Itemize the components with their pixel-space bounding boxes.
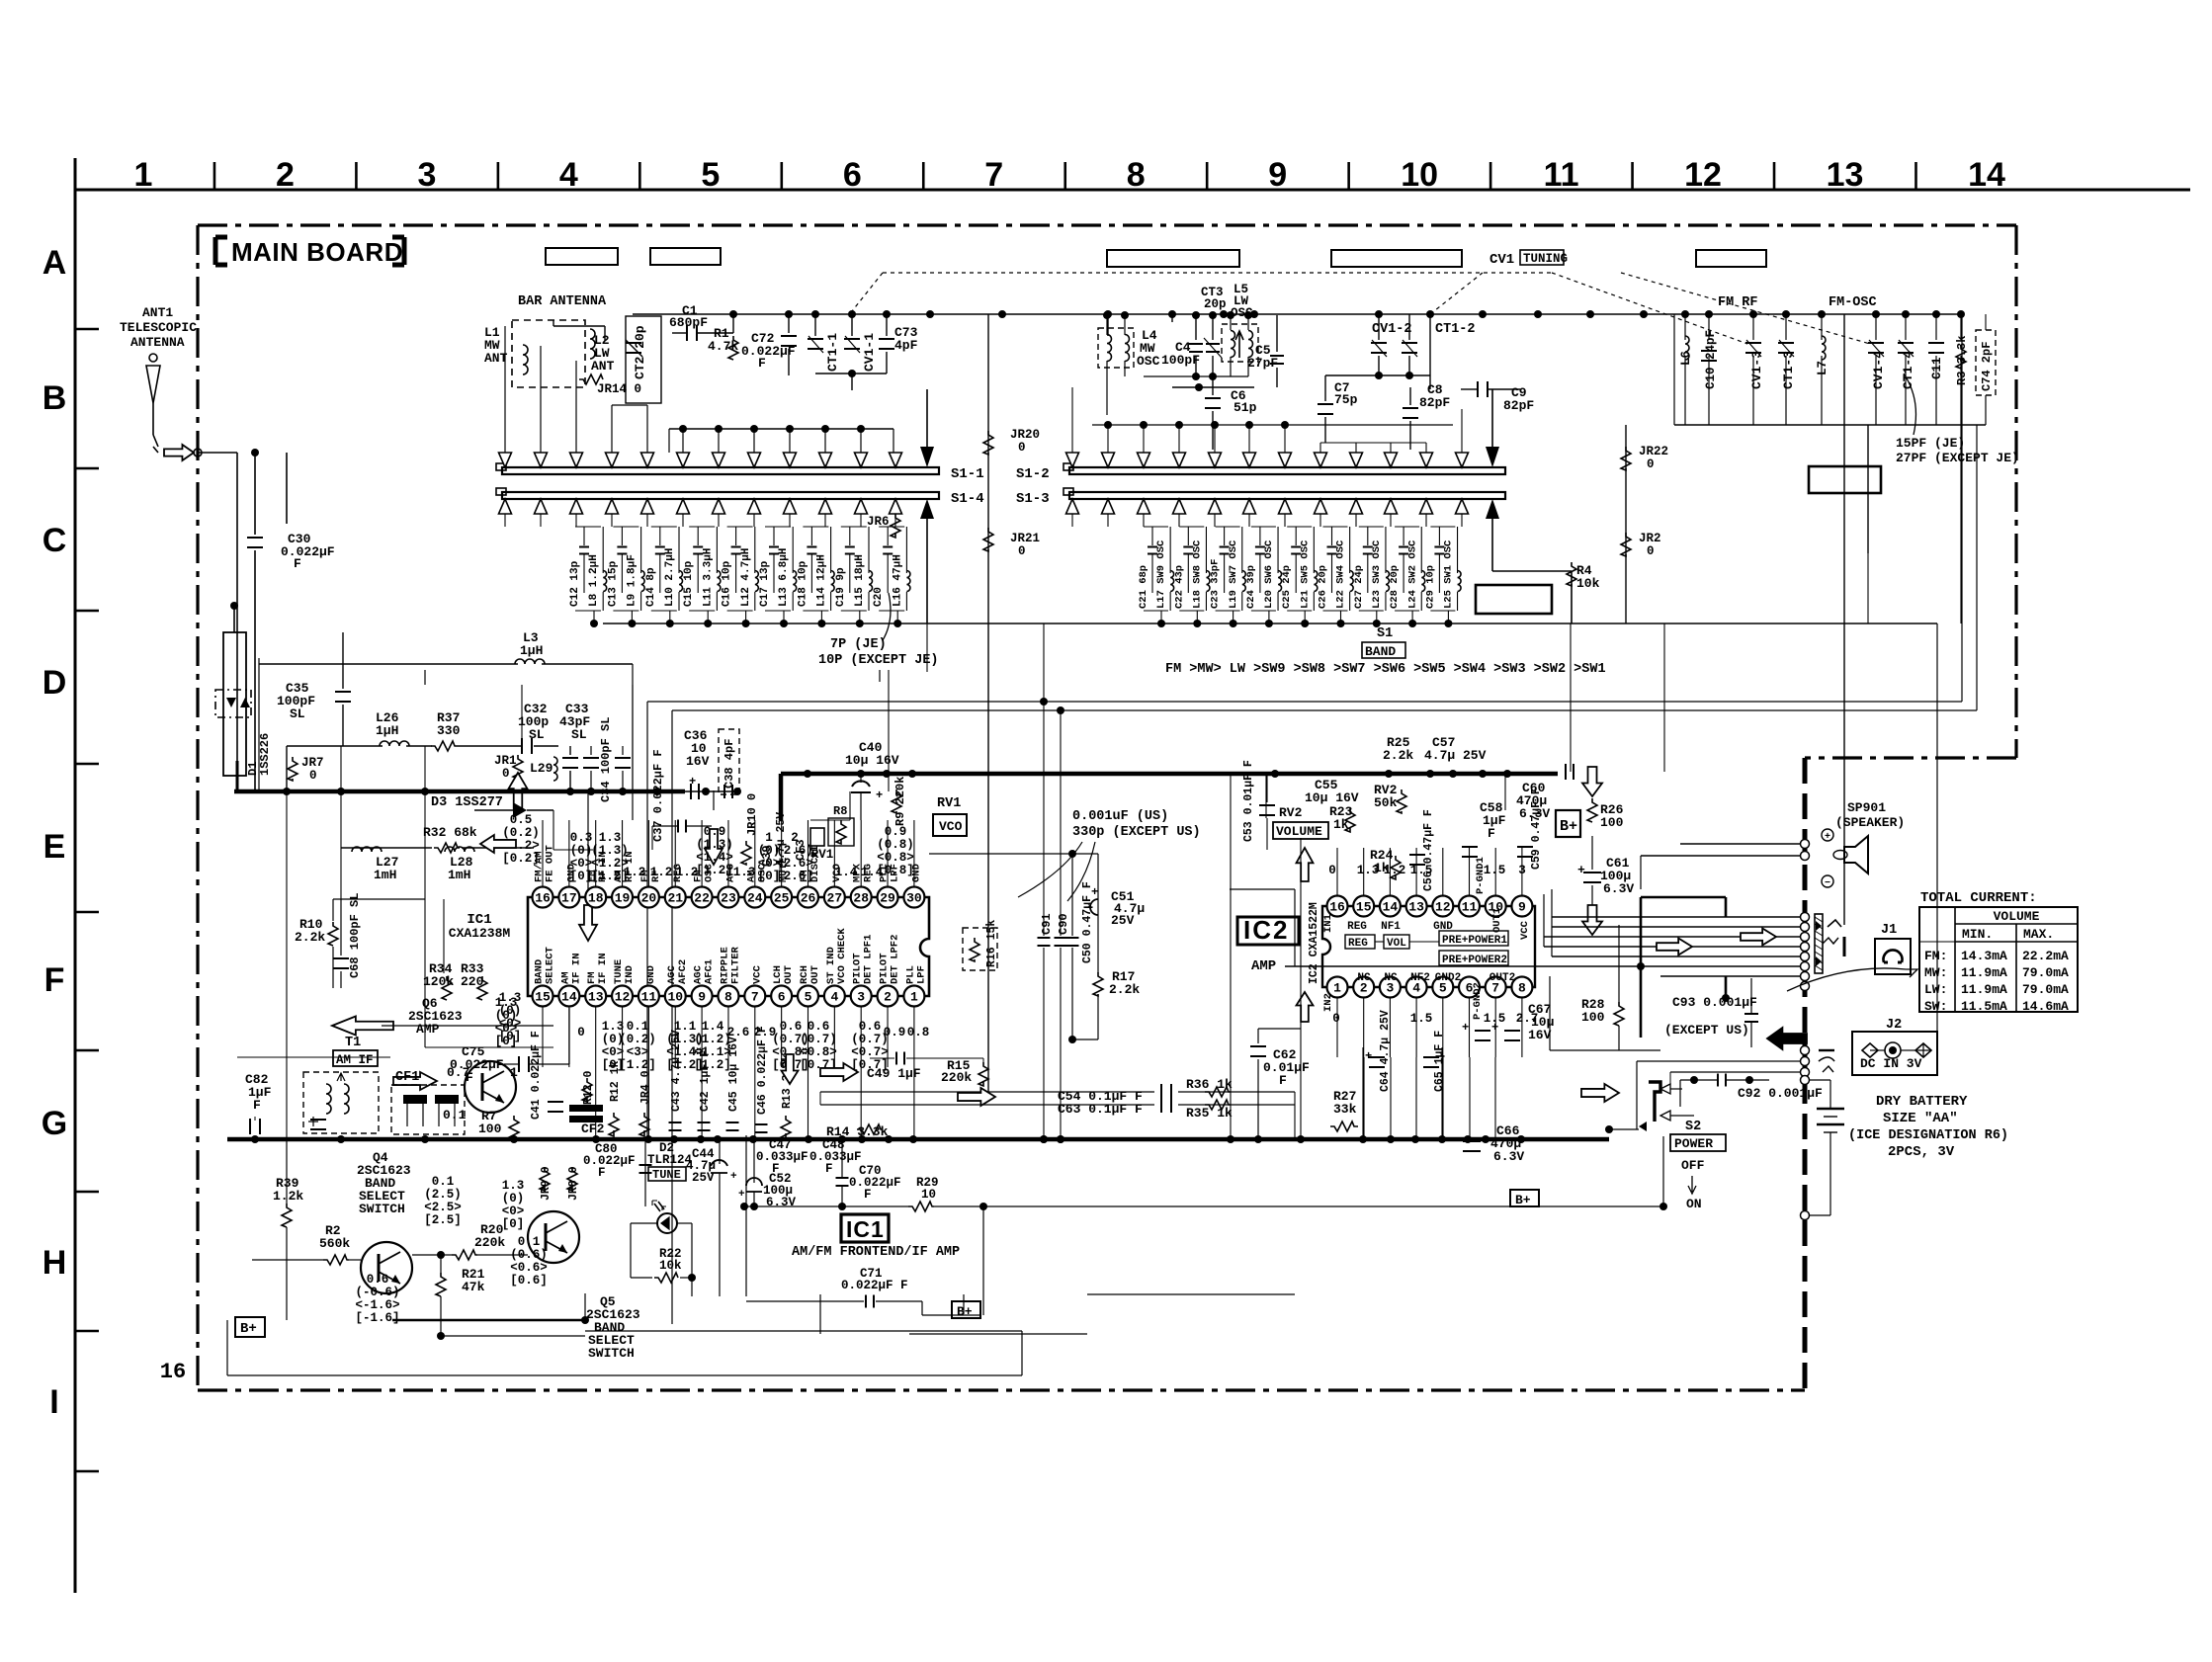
svg-text:BAR ANTENNA: BAR ANTENNA [518,294,607,309]
svg-text:GND2: GND2 [1435,972,1461,984]
svg-text:13: 13 [588,990,604,1005]
svg-text:2: 2 [791,831,799,845]
svg-text:L8 1.2μH: L8 1.2μH [588,554,600,607]
svg-text:F: F [825,1162,833,1176]
svg-text:1.3: 1.3 [599,831,622,845]
svg-text:1.3: 1.3 [733,866,756,879]
svg-text:MAIN BOARD: MAIN BOARD [231,237,403,267]
svg-text:RV1: RV1 [811,848,834,862]
svg-text:4: 4 [559,156,578,194]
svg-text:C18 10p: C18 10p [797,560,808,607]
svg-text:<0>: <0> [570,857,593,871]
svg-text:27: 27 [827,891,843,906]
svg-text:C41 0.022μF F: C41 0.022μF F [530,1031,543,1120]
svg-text:(SPEAKER): (SPEAKER) [1835,815,1905,830]
svg-text:L24 SW2 OSC: L24 SW2 OSC [1406,540,1418,609]
svg-text:0: 0 [1018,441,1026,455]
svg-text:51p: 51p [1234,400,1257,415]
svg-text:3: 3 [857,990,865,1005]
svg-text:[0.6]: [0.6] [510,1274,548,1288]
svg-text:JR14 0: JR14 0 [597,382,641,396]
svg-text:L18 SW8 OSC: L18 SW8 OSC [1191,540,1203,609]
svg-text:0.1: 0.1 [627,1020,649,1034]
svg-text:2: 2 [276,156,295,194]
svg-text:20: 20 [641,891,657,906]
svg-text:12: 12 [1684,156,1722,194]
svg-text:C: C [43,522,67,559]
svg-text:1: 1 [765,831,773,845]
svg-text:P-GND1: P-GND1 [1475,857,1487,894]
svg-text:TUNING: TUNING [1523,252,1568,266]
svg-text:330p (EXCEPT US): 330p (EXCEPT US) [1072,825,1201,840]
svg-text:24: 24 [747,891,763,906]
svg-text:[0]: [0] [499,1030,522,1043]
svg-text:DET LPF1: DET LPF1 [863,935,875,984]
svg-text:TELESCOPIC: TELESCOPIC [120,320,197,335]
svg-text:14: 14 [1968,156,2005,194]
svg-text:0.022μF: 0.022μF [849,1176,901,1190]
svg-text:1μH: 1μH [376,723,398,738]
svg-text:79.0mA: 79.0mA [2022,965,2069,980]
svg-text:S1-4: S1-4 [951,491,984,507]
svg-text:+: + [1491,1021,1498,1035]
svg-text:(-0.6): (-0.6) [355,1286,399,1299]
svg-text:FM:: FM: [1924,949,1947,963]
svg-text:2.2k: 2.2k [295,930,325,945]
svg-text:0.1: 0.1 [443,1108,467,1122]
svg-text:22: 22 [694,891,710,906]
svg-text:23: 23 [721,891,736,906]
svg-text:+: + [730,1171,737,1183]
svg-text:220k: 220k [941,1070,972,1085]
svg-text:MW:: MW: [1924,965,1947,980]
svg-text:(0.8): (0.8) [877,838,914,852]
svg-text:AM IF: AM IF [336,1053,374,1067]
svg-text:LW:: LW: [1924,982,1947,997]
svg-text:F: F [253,1098,261,1113]
svg-text:16V: 16V [1528,1028,1552,1042]
svg-text:18: 18 [588,891,604,906]
svg-text:PRE+POWER1: PRE+POWER1 [1442,935,1507,947]
svg-text:C19 9p: C19 9p [835,567,847,607]
svg-text:RV2: RV2 [1279,805,1303,820]
svg-text:OUT: OUT [809,965,821,984]
svg-text:16: 16 [1329,900,1345,915]
svg-text:C74 2pF: C74 2pF [1980,342,1994,391]
svg-text:C10 24pF: C10 24pF [1704,330,1718,389]
svg-text:(0): (0) [502,1192,525,1205]
svg-text:100: 100 [1581,1010,1605,1025]
svg-text:FM RF: FM RF [1718,295,1758,310]
svg-text:0.5: 0.5 [510,813,533,827]
svg-text:IF IN: IF IN [570,953,582,984]
svg-text:0: 0 [1018,544,1026,558]
svg-text:CXA1238M: CXA1238M [449,926,511,941]
svg-text:50k: 50k [1374,795,1398,810]
svg-text:0.6: 0.6 [808,1020,830,1034]
svg-text:JR10 0: JR10 0 [745,793,759,836]
svg-text:C37 0.022μF F: C37 0.022μF F [651,749,665,842]
svg-text:100pF: 100pF [1161,353,1200,368]
svg-text:<3>: <3> [627,1045,649,1059]
svg-text:L16 47μH: L16 47μH [892,554,903,607]
svg-text:1mH: 1mH [374,868,396,882]
svg-text:F: F [758,356,766,371]
svg-text:NC: NC [1357,972,1371,984]
svg-text:<0>: <0> [499,1017,522,1031]
svg-text:CT1-2: CT1-2 [1435,322,1476,337]
svg-text:11.9mA: 11.9mA [1961,982,2007,997]
svg-text:BAND: BAND [1365,644,1396,659]
svg-text:0.033μF: 0.033μF [756,1150,808,1164]
svg-text:5: 5 [701,156,720,194]
svg-text:L20 SW6 OSC: L20 SW6 OSC [1263,540,1275,609]
svg-text:82pF: 82pF [1503,398,1534,413]
svg-text:C46 0.022μF F: C46 0.022μF F [756,1026,769,1115]
svg-text:[0.8]: [0.8] [877,864,914,877]
svg-text:L10 2.7μH: L10 2.7μH [664,548,676,607]
svg-text:C63 0.1μF F: C63 0.1μF F [1058,1102,1143,1117]
svg-text:C50 0.47μF F: C50 0.47μF F [1081,881,1094,963]
svg-text:VOLUME: VOLUME [1994,909,2040,924]
svg-text:TUNE: TUNE [652,1168,681,1182]
svg-text:(2.5): (2.5) [424,1188,462,1202]
svg-text:F: F [598,1166,606,1180]
svg-text:C49 1μF: C49 1μF [867,1066,921,1081]
svg-text:ON: ON [1686,1197,1702,1211]
svg-text:C23 33pF: C23 33pF [1210,559,1222,609]
svg-text:10k: 10k [659,1259,682,1273]
svg-text:B: B [43,379,67,417]
svg-text:0: 0 [1332,1012,1340,1026]
svg-text:19: 19 [615,891,631,906]
svg-text:AFC2: AFC2 [677,959,689,984]
svg-text:1.3: 1.3 [499,991,522,1005]
svg-text:14: 14 [1383,900,1399,915]
svg-text:0: 0 [1647,544,1655,558]
svg-text:79.0mA: 79.0mA [2022,982,2069,997]
svg-text:[1.2]: [1.2] [619,1058,656,1072]
svg-text:VOL: VOL [1387,938,1406,950]
svg-text:680pF: 680pF [669,315,708,330]
svg-text:SW:: SW: [1924,999,1947,1014]
svg-text:100: 100 [478,1122,502,1136]
svg-text:30: 30 [906,891,922,906]
svg-text:S1-3: S1-3 [1016,491,1050,507]
svg-text:ANT1: ANT1 [142,305,173,320]
svg-text:1.2: 1.2 [650,866,673,879]
svg-text:1.2k: 1.2k [273,1189,303,1204]
svg-text:1.3: 1.3 [602,1020,625,1034]
svg-text:CT1-1: CT1-1 [825,333,840,372]
svg-text:<0.6>: <0.6> [510,1261,548,1275]
svg-text:L21 SW5 OSC: L21 SW5 OSC [1299,540,1311,609]
svg-text:JR2: JR2 [1639,532,1661,545]
svg-text:S1-2: S1-2 [1016,466,1050,482]
svg-text:6.3V: 6.3V [1493,1149,1524,1164]
svg-text:5: 5 [805,990,812,1005]
svg-text:IND: IND [624,965,636,984]
svg-text:R12 1k: R12 1k [609,1060,622,1102]
svg-text:C91: C91 [1040,913,1054,935]
svg-text:T1: T1 [345,1036,361,1050]
svg-text:B+: B+ [957,1304,973,1319]
svg-text:C27 24p: C27 24p [1353,565,1365,609]
svg-text:AMP: AMP [416,1022,440,1037]
svg-text:VCC: VCC [1519,920,1531,940]
svg-text:29: 29 [880,891,895,906]
svg-text:10μ 16V: 10μ 16V [845,753,899,768]
svg-text:CF1: CF1 [395,1070,419,1085]
svg-text:1.4: 1.4 [835,866,858,879]
svg-text:C22 43p: C22 43p [1173,565,1185,609]
svg-text:6: 6 [843,156,862,194]
svg-text:560k: 560k [319,1236,350,1251]
svg-text:CF2: CF2 [581,1122,605,1136]
svg-text:+: + [1365,1049,1372,1063]
svg-text:13: 13 [1827,156,1864,194]
svg-text:LPF: LPF [915,965,927,984]
svg-text:0.9: 0.9 [704,825,726,839]
svg-text:L23 SW3 OSC: L23 SW3 OSC [1371,540,1383,609]
svg-text:0.1: 0.1 [432,1175,455,1189]
svg-text:0.033μF: 0.033μF [809,1150,862,1164]
svg-text:[-1.6]: [-1.6] [355,1311,399,1325]
svg-text:B+: B+ [240,1321,257,1337]
svg-text:L11 3.3μH: L11 3.3μH [702,548,714,607]
svg-text:SELECT: SELECT [545,947,556,984]
svg-text:0.6: 0.6 [780,1020,803,1034]
svg-text:C68 100pF SL: C68 100pF SL [348,893,362,978]
svg-text:SWITCH: SWITCH [359,1202,405,1216]
svg-text:0: 0 [502,767,510,781]
svg-text:C11: C11 [1930,357,1944,379]
svg-text:VOLUME: VOLUME [1276,824,1322,839]
svg-text:C14 8p: C14 8p [645,567,657,607]
svg-text:JR21: JR21 [1010,532,1040,545]
svg-text:1: 1 [134,156,153,194]
svg-text:1.4: 1.4 [702,1020,724,1034]
svg-text:D: D [43,664,67,702]
svg-text:C24 39p: C24 39p [1245,565,1257,609]
svg-text:0.022μF: 0.022μF [583,1154,636,1168]
svg-text:JR4 0: JR4 0 [639,1070,652,1105]
svg-text:E: E [43,828,66,866]
svg-text:15: 15 [535,990,551,1005]
svg-text:15: 15 [1356,900,1372,915]
svg-text:L7: L7 [1816,361,1829,375]
svg-text:2.2k: 2.2k [1109,982,1140,997]
svg-text:NF1: NF1 [1381,921,1401,933]
svg-text:<-1.6>: <-1.6> [355,1298,399,1312]
svg-text:25: 25 [774,891,790,906]
svg-text:A: A [43,244,67,282]
svg-text:F: F [1488,826,1495,841]
svg-text:1.3: 1.3 [502,1179,525,1193]
svg-text:<2.5>: <2.5> [424,1201,462,1214]
svg-text:C45 10μ 16V: C45 10μ 16V [727,1037,740,1112]
svg-text:0.7: 0.7 [447,1065,469,1080]
svg-text:12: 12 [615,990,631,1005]
svg-text:PRE+POWER2: PRE+POWER2 [1442,955,1507,966]
svg-text:+: + [738,1189,745,1201]
svg-text:1: 1 [1333,981,1341,996]
svg-text:C12 13p: C12 13p [569,560,581,607]
svg-text:DET LPF2: DET LPF2 [890,935,901,984]
svg-text:D3 1SS277: D3 1SS277 [431,795,503,810]
svg-text:C43 4.7μ 25V: C43 4.7μ 25V [670,1030,683,1112]
svg-text:1: 1 [910,990,918,1005]
svg-text:JR22: JR22 [1639,445,1668,458]
svg-text:R16 15k: R16 15k [985,920,998,967]
svg-text:FM-OSC: FM-OSC [1829,295,1877,310]
svg-text:F: F [44,961,65,999]
svg-text:4.7μ 25V: 4.7μ 25V [1424,748,1487,763]
svg-text:1: 1 [510,1065,518,1080]
svg-text:+: + [1825,832,1830,843]
svg-text:MIN.: MIN. [1962,927,1993,942]
svg-text:FM >MW> LW >SW9 >SW8 >SW7 >SW6: FM >MW> LW >SW9 >SW8 >SW7 >SW6 >SW5 >SW4… [1165,662,1606,677]
svg-text:C38 4pF: C38 4pF [723,739,736,789]
svg-text:SL: SL [571,727,587,742]
svg-text:22.2mA: 22.2mA [2022,949,2069,963]
svg-text:J1: J1 [1881,923,1897,938]
svg-text:SWITCH: SWITCH [588,1346,635,1361]
svg-text:SIZE "AA": SIZE "AA" [1883,1111,1958,1126]
svg-text:27PF (EXCEPT JE): 27PF (EXCEPT JE) [1896,451,2019,465]
svg-text:OUT1: OUT1 [1491,908,1503,933]
svg-text:R35 1k: R35 1k [1186,1106,1233,1121]
svg-text:GND: GND [645,965,657,984]
svg-text:L29: L29 [530,761,553,776]
svg-text:SL: SL [290,706,305,721]
svg-text:7P (JE): 7P (JE) [830,637,887,652]
svg-text:(1.2): (1.2) [694,1033,731,1046]
svg-text:L13 6.8μH: L13 6.8μH [778,548,790,607]
svg-text:11.5mA: 11.5mA [1961,999,2007,1014]
svg-text:OUT2: OUT2 [1489,972,1515,984]
svg-text:C56 0.47μF F: C56 0.47μF F [1422,809,1435,891]
svg-text:82pF: 82pF [1419,395,1450,410]
svg-text:VCC: VCC [751,964,763,984]
svg-text:0.6: 0.6 [859,1020,882,1034]
svg-text:13: 13 [1408,900,1424,915]
svg-text:0: 0 [309,769,317,783]
svg-text:F: F [864,1188,872,1202]
svg-text:<0.8>: <0.8> [877,851,914,865]
svg-text:[0]: [0] [570,870,593,883]
svg-text:CV1-1: CV1-1 [862,333,877,372]
svg-text:<0>: <0> [502,1205,525,1218]
svg-text:−: − [1825,878,1830,889]
svg-text:6.3V: 6.3V [1603,881,1634,896]
svg-text:9: 9 [698,990,706,1005]
svg-text:I: I [49,1383,58,1421]
svg-text:15PF (JE): 15PF (JE) [1896,436,1965,451]
svg-text:3: 3 [417,156,436,194]
svg-text:L14 12μH: L14 12μH [816,554,828,607]
svg-text:<0.8>: <0.8> [800,1045,837,1059]
svg-text:R8: R8 [833,804,847,818]
svg-text:1k: 1k [1374,861,1390,875]
svg-text:G: G [42,1105,67,1142]
svg-text:75p: 75p [1334,392,1358,407]
svg-text:9: 9 [1518,900,1526,915]
svg-text:C42 1μF F: C42 1μF F [699,1050,712,1112]
svg-text:C93 0.001μF: C93 0.001μF [1672,995,1757,1010]
svg-text:JR1: JR1 [494,754,517,768]
svg-text:IN1: IN1 [1322,914,1334,933]
svg-text:B+: B+ [1515,1193,1531,1207]
svg-text:NC: NC [1384,972,1398,984]
svg-text:10k: 10k [1576,576,1600,591]
svg-text:8: 8 [724,990,732,1005]
svg-text:2PCS, 3V: 2PCS, 3V [1888,1144,1955,1160]
svg-text:14: 14 [561,990,577,1005]
svg-text:6: 6 [778,990,786,1005]
svg-text:S2: S2 [1685,1120,1701,1134]
svg-text:16: 16 [160,1360,186,1384]
svg-text:C28 20p: C28 20p [1389,565,1401,609]
svg-text:FE OUT: FE OUT [545,845,556,882]
svg-text:ANTENNA: ANTENNA [130,335,185,350]
svg-text:P-GND2: P-GND2 [1472,982,1484,1020]
svg-text:L17 SW9 OSC: L17 SW9 OSC [1155,540,1167,609]
svg-text:F: F [294,556,301,571]
svg-text:L15 18μH: L15 18μH [854,554,866,607]
svg-text:H: H [43,1244,67,1282]
svg-text:17: 17 [561,891,577,906]
svg-text:CV1: CV1 [1489,252,1514,268]
svg-text:1SS226: 1SS226 [258,733,272,776]
svg-text:REG: REG [1348,938,1368,950]
svg-text:IF IN: IF IN [597,953,609,984]
svg-text:F: F [1279,1073,1287,1088]
svg-text:R9 220k: R9 220k [893,777,907,826]
svg-text:7: 7 [984,156,1003,194]
svg-text:100: 100 [1600,815,1624,830]
svg-text:C13 15p: C13 15p [607,560,619,607]
svg-text:C29 10p: C29 10p [1424,565,1436,609]
svg-text:20p: 20p [1204,297,1227,311]
svg-text:VCO CHECK: VCO CHECK [836,928,848,984]
svg-text:L9 1.8μF: L9 1.8μF [627,554,638,607]
svg-text:(0.2): (0.2) [502,826,540,840]
svg-text:VCO: VCO [939,819,963,834]
svg-text:[0]: [0] [502,1217,525,1231]
svg-text:C90: C90 [1057,913,1070,935]
svg-text:(0): (0) [499,1004,522,1018]
svg-text:8: 8 [1518,981,1526,996]
svg-text:0.6: 0.6 [367,1273,389,1287]
svg-text:FILTER: FILTER [729,946,741,984]
svg-text:10: 10 [1401,156,1438,194]
svg-text:10μ 16V: 10μ 16V [1305,790,1359,805]
svg-text:C53 0.01μF F: C53 0.01μF F [1242,760,1255,842]
svg-text:11: 11 [1462,900,1478,915]
svg-text:J2: J2 [1886,1018,1902,1033]
svg-text:6.3V: 6.3V [766,1196,797,1209]
svg-text:33k: 33k [1333,1102,1357,1117]
svg-text:0.001uF (US): 0.001uF (US) [1072,809,1168,824]
svg-text:+: + [876,789,883,802]
svg-text:4pF: 4pF [894,338,918,353]
svg-text:(EXCEPT US): (EXCEPT US) [1664,1023,1749,1038]
svg-text:0: 0 [577,1026,585,1039]
svg-text:10: 10 [921,1188,936,1202]
svg-text:+: + [1462,1021,1469,1035]
svg-text:AMP: AMP [1251,958,1276,974]
